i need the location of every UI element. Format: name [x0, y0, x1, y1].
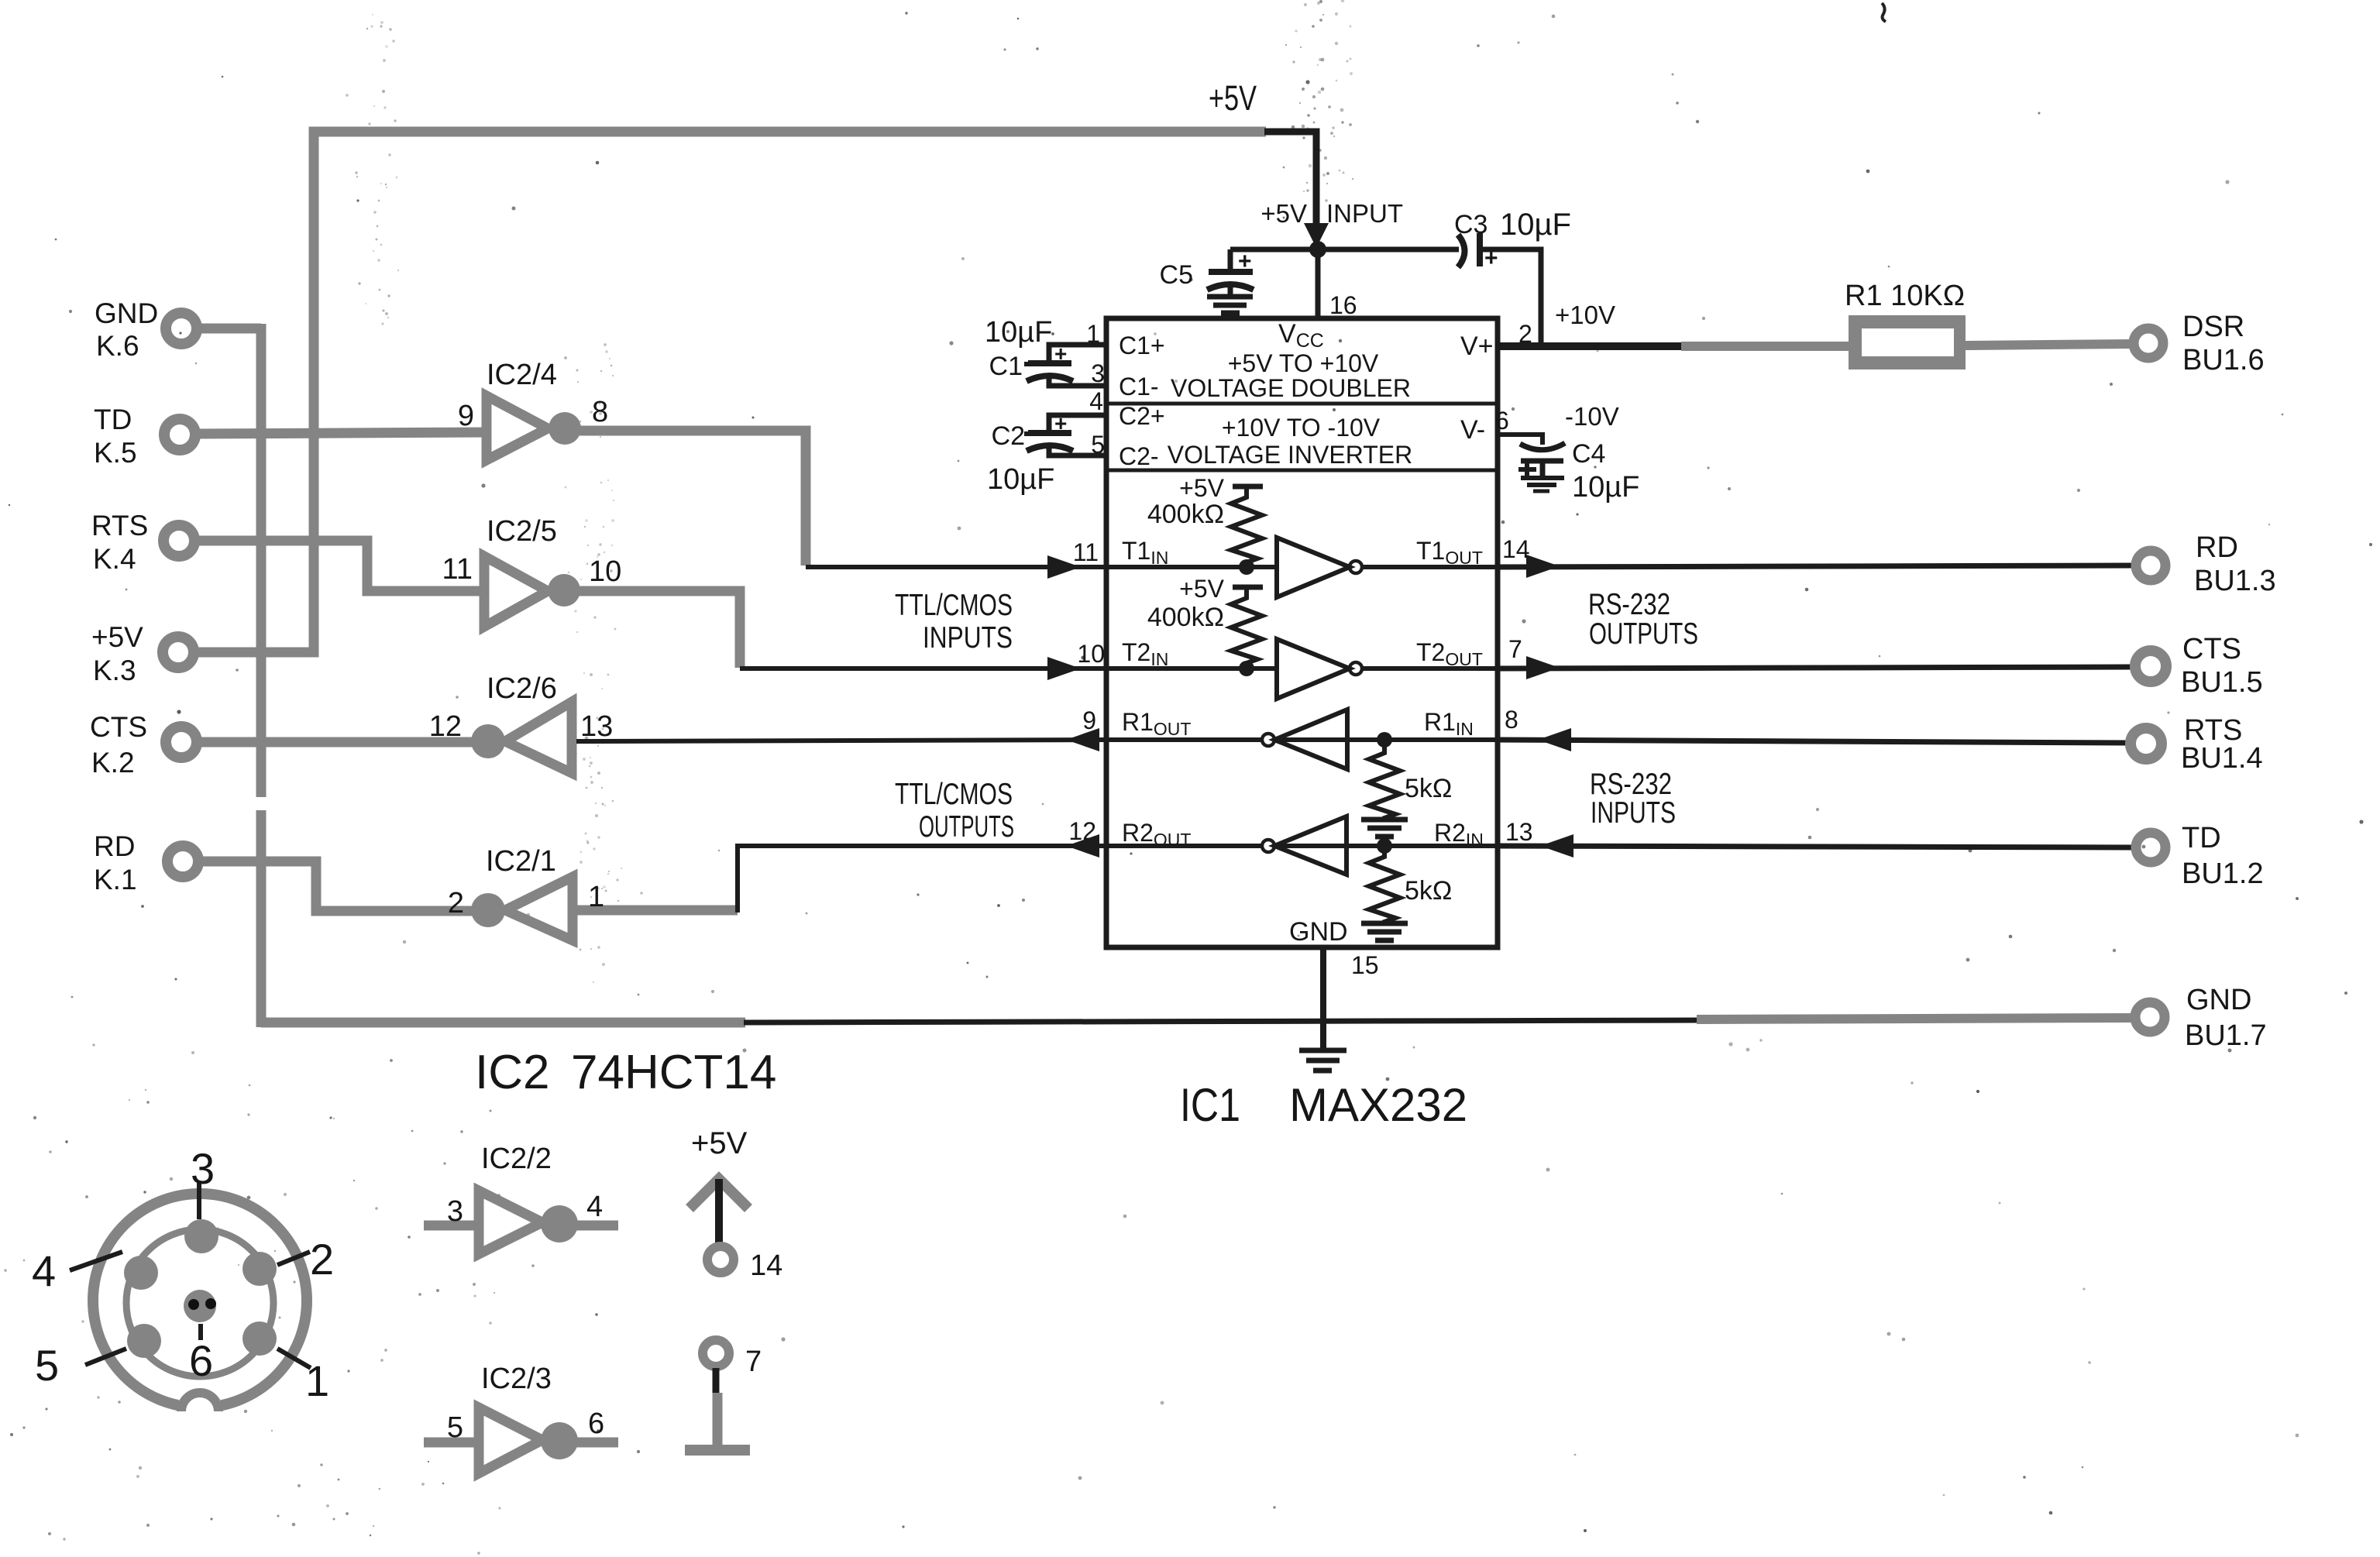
connector DIN inner ring — [126, 1229, 273, 1377]
wire RD K.1 jog to IC2/1 — [200, 861, 476, 911]
svg-text:CTS: CTS — [90, 711, 147, 743]
svg-text:V-: V- — [1460, 415, 1485, 445]
power +5V symbol — [690, 1179, 748, 1273]
receiver R2 — [1106, 816, 1498, 875]
svg-text:74HCT14: 74HCT14 — [571, 1046, 776, 1099]
svg-text:+5V: +5V — [1209, 78, 1257, 118]
wire T2OUT to CTS — [1498, 667, 2132, 669]
ground 5k 2 — [1361, 923, 1408, 940]
svg-text:C3: C3 — [1454, 210, 1487, 239]
svg-text:GND: GND — [2186, 984, 2251, 1016]
svg-text:K.3: K.3 — [93, 655, 136, 686]
capacitor C5 — [1207, 249, 1254, 313]
wire GND vertical upper — [256, 324, 267, 797]
svg-text:TD: TD — [94, 404, 132, 435]
arrowhead R1IN — [1538, 728, 1571, 751]
arrowhead R2OUT — [1066, 834, 1099, 858]
svg-text:TD: TD — [2182, 822, 2221, 854]
svg-text:V+: V+ — [1460, 332, 1494, 361]
node junction dot +5V input — [1309, 241, 1326, 258]
wire pin16 vertical — [1316, 249, 1321, 318]
arrowhead T2IN — [1047, 657, 1081, 680]
wire T1IN black — [806, 565, 1106, 569]
svg-text:C5: C5 — [1160, 260, 1193, 290]
wire GND vertical lower — [256, 810, 267, 1027]
capacitor C2 — [1024, 411, 1106, 455]
svg-text:+: + — [1054, 411, 1067, 435]
svg-text:VOLTAGE INVERTER: VOLTAGE INVERTER — [1168, 441, 1413, 469]
svg-text:BU1.4: BU1.4 — [2181, 742, 2263, 775]
svg-text:11: 11 — [1073, 538, 1099, 566]
terminal RTS BU1.4 — [2131, 728, 2162, 759]
svg-text:10: 10 — [1077, 640, 1105, 668]
terminal TD K.5 — [164, 419, 195, 450]
svg-text:-10V: -10V — [1565, 402, 1619, 431]
svg-text:C1: C1 — [989, 352, 1023, 381]
svg-text:+5V: +5V — [1261, 199, 1307, 228]
wire CTS K.2 from IC2/6 — [198, 737, 474, 748]
resistor 400k pullup 1 — [1231, 486, 1263, 567]
svg-text:10: 10 — [589, 555, 621, 588]
resistor 5k 1 — [1369, 740, 1400, 820]
svg-text:BU1.3: BU1.3 — [2194, 565, 2276, 597]
svg-text:IC2/1: IC2/1 — [486, 845, 556, 878]
terminal DSR BU1.6 — [2134, 328, 2163, 358]
DIN pin 2 — [242, 1252, 277, 1286]
wire R2IN to TD — [1498, 846, 2133, 847]
wire GND bus gray right — [1697, 1018, 2134, 1019]
svg-text:10µF: 10µF — [1572, 471, 1639, 504]
buffer T1 — [1106, 538, 1498, 597]
wire R1OUT black — [576, 740, 1106, 741]
wire R2OUT black — [738, 846, 1106, 913]
svg-text:DSR: DSR — [2182, 311, 2244, 343]
svg-text:1: 1 — [588, 881, 604, 913]
terminal CTS BU1.5 — [2135, 651, 2166, 682]
svg-text:RS-232: RS-232 — [1588, 588, 1670, 621]
DIN tick 2 — [277, 1252, 310, 1265]
svg-text:6: 6 — [1495, 407, 1509, 435]
connector DIN notch — [179, 1393, 221, 1424]
svg-text:GND: GND — [1289, 917, 1348, 947]
svg-text:CTS: CTS — [2182, 633, 2241, 665]
svg-text:K.5: K.5 — [94, 437, 137, 469]
DIN pin 4 — [124, 1256, 158, 1290]
ground pin7 symbol — [685, 1340, 750, 1450]
svg-text:C1-: C1- — [1119, 373, 1159, 400]
terminal +5V K.3 — [163, 637, 194, 668]
svg-text:10µF: 10µF — [1500, 208, 1571, 242]
svg-text:16: 16 — [1329, 291, 1357, 319]
arrowhead T1IN — [1047, 555, 1081, 579]
inverter IC2/5 — [484, 556, 740, 668]
IC U1 MAX232 box — [1106, 318, 1498, 947]
svg-text:IC2/6: IC2/6 — [487, 672, 557, 705]
terminal GND K.6 — [166, 313, 197, 344]
DIN tick 4 — [70, 1252, 122, 1270]
svg-text:C2+: C2+ — [1119, 402, 1165, 430]
svg-text:11: 11 — [442, 553, 473, 586]
svg-text:10µF: 10µF — [985, 316, 1052, 349]
svg-text:C1+: C1+ — [1119, 332, 1165, 359]
svg-text:5: 5 — [35, 1341, 59, 1390]
inverter IC2/6 — [471, 702, 572, 773]
svg-text:C2: C2 — [992, 421, 1025, 451]
inverter IC2/2 — [424, 1191, 618, 1254]
svg-text:14: 14 — [1502, 535, 1530, 563]
inverter IC2/1 — [471, 877, 738, 940]
svg-text:13: 13 — [580, 710, 613, 743]
terminal TD BU1.2 — [2136, 833, 2165, 862]
svg-text:GND: GND — [95, 297, 158, 329]
node dot R2IN — [1377, 838, 1392, 854]
svg-text:IC2/5: IC2/5 — [487, 515, 557, 548]
svg-text:TTL/CMOS: TTL/CMOS — [895, 778, 1013, 811]
DIN pin 3 — [184, 1219, 218, 1253]
svg-text:K.4: K.4 — [93, 543, 136, 575]
resistor 400k pullup 2 — [1231, 587, 1263, 669]
svg-text:13: 13 — [1505, 818, 1533, 846]
svg-text:TTL/CMOS: TTL/CMOS — [895, 589, 1013, 622]
svg-text:INPUTS: INPUTS — [1591, 796, 1676, 830]
svg-text:9: 9 — [458, 400, 474, 432]
svg-text:6: 6 — [588, 1407, 604, 1440]
svg-text:MAX232: MAX232 — [1289, 1079, 1467, 1131]
wire +5V feed from K.3 up and across top — [198, 132, 1266, 652]
svg-text:4: 4 — [1089, 387, 1103, 415]
terminal RD K.1 — [167, 846, 198, 877]
DIN tick 5 — [85, 1349, 126, 1365]
svg-text:+5V TO +10V: +5V TO +10V — [1228, 349, 1379, 377]
svg-text:RD: RD — [2196, 531, 2238, 564]
arrowhead T1OUT — [1526, 555, 1560, 578]
arrowhead R1OUT — [1066, 728, 1099, 751]
svg-text:RD: RD — [94, 830, 135, 862]
terminal GND BU1.7 — [2135, 1002, 2165, 1032]
DIN tick 3 — [197, 1182, 201, 1219]
wire GND bus black middle — [744, 1020, 1701, 1023]
resistor R1 10K — [1849, 315, 1966, 369]
svg-text:C4: C4 — [1572, 439, 1605, 469]
capacitor C3 — [1458, 233, 1498, 271]
svg-text:400kΩ: 400kΩ — [1147, 603, 1224, 632]
svg-text:5kΩ: 5kΩ — [1405, 774, 1452, 803]
svg-text:15: 15 — [1351, 951, 1379, 979]
ground 5k 1 — [1361, 820, 1408, 837]
svg-text:OUTPUTS: OUTPUTS — [1589, 617, 1698, 651]
node +5V INPUT arrowhead — [1304, 223, 1329, 248]
arrowhead R2IN — [1540, 834, 1573, 858]
svg-text:IC2/3: IC2/3 — [481, 1363, 552, 1395]
wire V+ black — [1498, 342, 1687, 350]
svg-text:+: + — [1054, 342, 1067, 366]
node dot R1IN — [1377, 732, 1392, 748]
svg-text:4: 4 — [586, 1191, 603, 1223]
buffer T2 — [1106, 639, 1498, 699]
svg-text:VOLTAGE DOUBLER: VOLTAGE DOUBLER — [1171, 374, 1411, 402]
DIN pin 6 — [184, 1290, 216, 1322]
capacitor C4 — [1518, 443, 1565, 491]
connector DIN outer ring — [93, 1194, 307, 1407]
svg-text:BU1.5: BU1.5 — [2181, 666, 2263, 699]
svg-text:4: 4 — [32, 1246, 56, 1295]
receiver R1 — [1106, 710, 1498, 769]
svg-text:2: 2 — [310, 1235, 334, 1284]
svg-text:+: + — [1484, 246, 1498, 271]
wire +5V K.3 stub — [195, 648, 318, 658]
svg-text:BU1.7: BU1.7 — [2185, 1019, 2267, 1052]
terminal CTS K.2 — [166, 727, 197, 758]
wire V+ gray to R1 — [1681, 342, 1853, 351]
wire GND bus gray left — [261, 1018, 745, 1028]
wire R1 to DSR — [1966, 344, 2133, 345]
svg-text:5kΩ: 5kΩ — [1405, 876, 1452, 906]
svg-text:+5V: +5V — [1179, 474, 1224, 502]
svg-text:7: 7 — [745, 1346, 762, 1378]
svg-text:5: 5 — [447, 1411, 463, 1444]
wire T1OUT to RD — [1498, 565, 2134, 567]
svg-text:+5V: +5V — [691, 1126, 748, 1160]
svg-text:RTS: RTS — [91, 510, 148, 541]
svg-text:K.2: K.2 — [91, 747, 135, 778]
resistor 5k 2 — [1369, 846, 1400, 923]
wire V- stub — [1498, 435, 1543, 445]
svg-text:8: 8 — [592, 396, 608, 428]
svg-text:BU1.6: BU1.6 — [2182, 344, 2265, 376]
svg-text:400kΩ: 400kΩ — [1147, 500, 1224, 529]
svg-text:6: 6 — [189, 1336, 213, 1385]
ground pin15 — [1299, 1050, 1346, 1071]
svg-text:R1 10KΩ: R1 10KΩ — [1845, 280, 1965, 312]
svg-text:BU1.2: BU1.2 — [2182, 858, 2264, 890]
svg-text:IC1: IC1 — [1180, 1079, 1240, 1131]
svg-text:3: 3 — [191, 1144, 215, 1193]
svg-text:K.1: K.1 — [94, 864, 137, 895]
wire C3 to V+ branch — [1480, 249, 1541, 346]
svg-text:+10V: +10V — [1555, 301, 1615, 329]
svg-text:IC2/4: IC2/4 — [487, 359, 557, 391]
svg-text:IC2/2: IC2/2 — [481, 1143, 552, 1175]
svg-text:+5V: +5V — [1179, 575, 1224, 603]
wire R1IN to RTS — [1498, 740, 2129, 743]
DIN tick 6 — [198, 1324, 203, 1340]
wire pin15 GND — [1320, 947, 1326, 1048]
wire +5V thin black to input arrow — [1264, 132, 1316, 228]
wire K.6 to vertical — [198, 324, 261, 334]
svg-text:INPUTS: INPUTS — [923, 621, 1013, 655]
wire T2IN black — [740, 666, 1106, 671]
svg-text:14: 14 — [750, 1249, 782, 1282]
inverter IC2/4 — [487, 396, 806, 565]
arrowhead T2OUT — [1526, 656, 1560, 679]
capacitor C1 — [1024, 342, 1106, 386]
svg-text:1: 1 — [305, 1356, 329, 1405]
svg-text:7: 7 — [1508, 635, 1522, 663]
DIN pin 5 — [127, 1324, 161, 1358]
node dot T2IN — [1239, 661, 1254, 676]
svg-text:12: 12 — [429, 710, 462, 743]
svg-text:+10V TO -10V: +10V TO -10V — [1222, 414, 1381, 442]
terminal RTS K.4 — [163, 525, 194, 556]
svg-text:+5V: +5V — [91, 621, 143, 653]
DIN tick 1 — [277, 1349, 311, 1368]
svg-text:8: 8 — [1505, 706, 1518, 734]
svg-text:3: 3 — [447, 1195, 463, 1228]
svg-text:C2-: C2- — [1119, 442, 1159, 470]
terminal RD BU1.3 — [2136, 551, 2165, 580]
svg-text:OUTPUTS: OUTPUTS — [919, 810, 1014, 844]
inverter IC2/3 — [424, 1407, 618, 1473]
svg-text:IC2: IC2 — [475, 1046, 549, 1099]
svg-text:+: + — [1238, 249, 1252, 274]
wire node to C5 — [1230, 247, 1459, 253]
svg-text:10µF: 10µF — [987, 463, 1054, 496]
wire RTS K.4 jog to IC2/5 — [196, 541, 487, 591]
DIN pin 1 — [242, 1322, 277, 1356]
svg-text:INPUT: INPUT — [1326, 199, 1403, 228]
node dot T1IN — [1239, 559, 1254, 575]
svg-text:2: 2 — [448, 887, 464, 919]
svg-text:K.6: K.6 — [96, 330, 139, 362]
wire TD K.5 to inverter — [197, 432, 490, 434]
